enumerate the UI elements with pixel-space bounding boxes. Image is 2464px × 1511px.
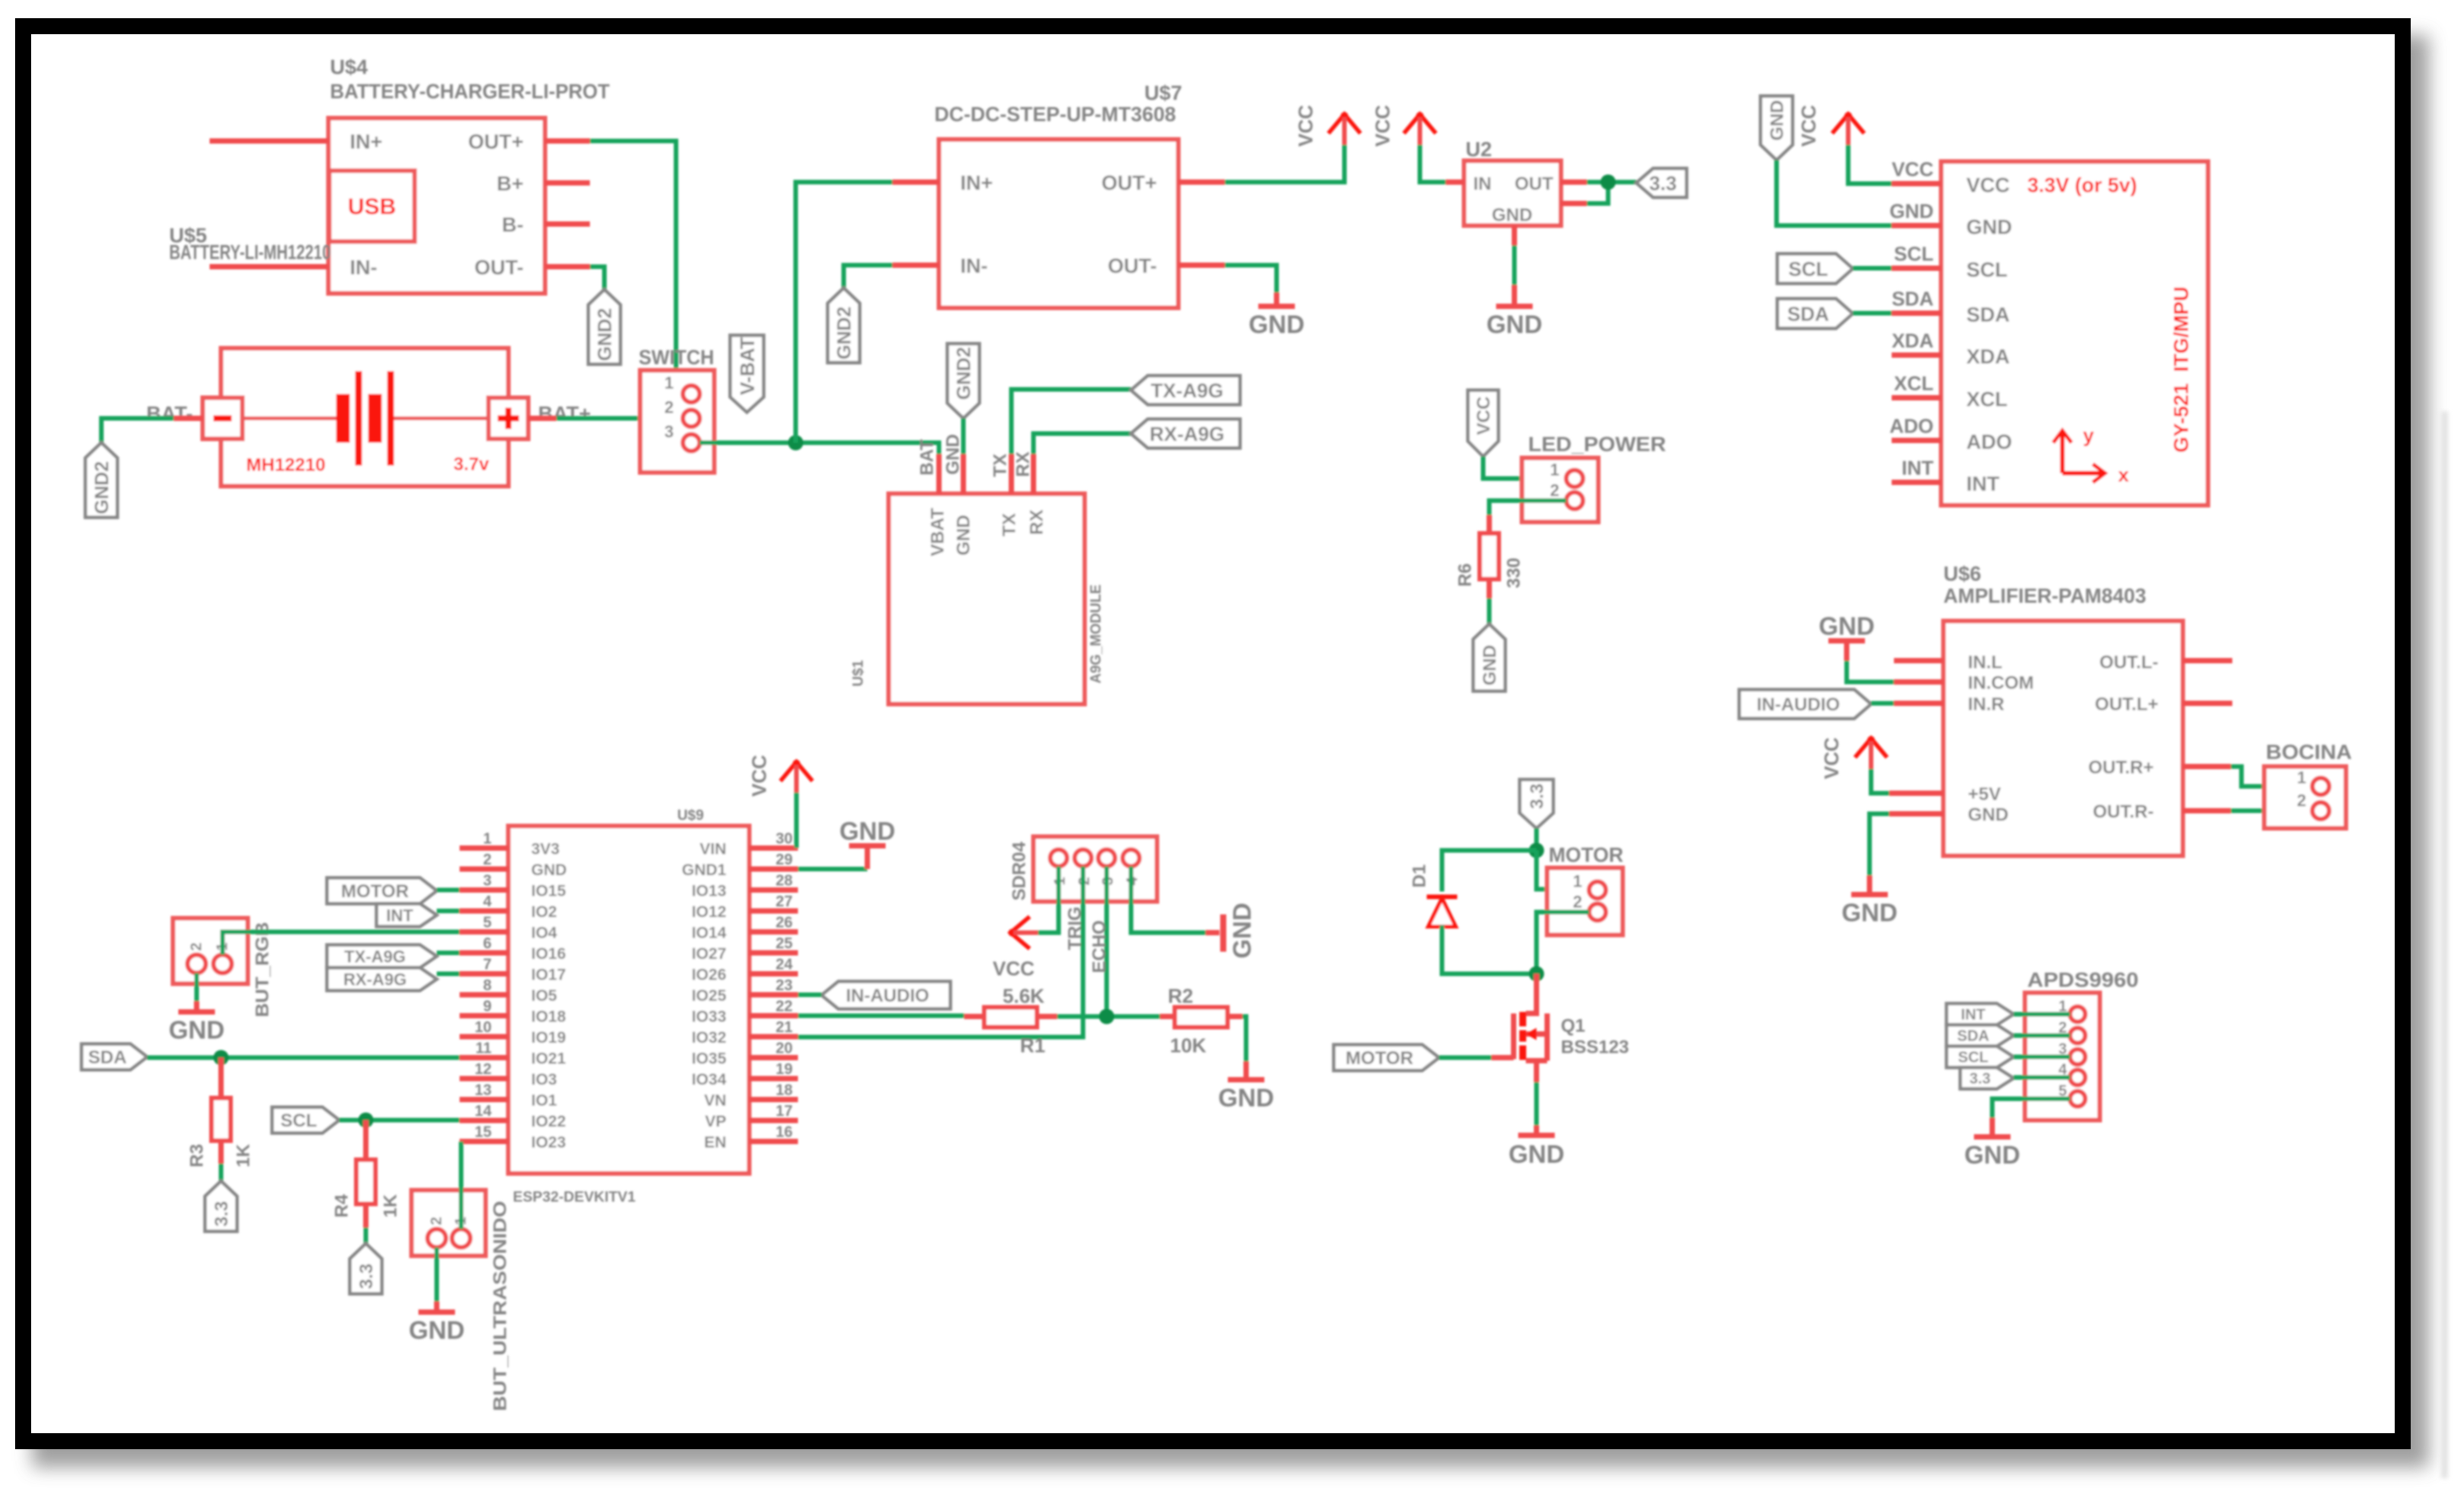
svg-text:VCC: VCC — [1966, 174, 2010, 197]
pin 2 GND of U$9 — [460, 852, 567, 879]
wire SCL flag to APDS9960 pin 3 — [2014, 1055, 2070, 1059]
APDS9960 pin 1 — [2059, 998, 2085, 1022]
junction node motor supply — [1529, 843, 1544, 858]
pin ADO of GY-521 — [1889, 415, 2012, 453]
pin 4 IO2 of U$9 — [460, 894, 557, 921]
svg-text:GND: GND — [1964, 1141, 2020, 1169]
svg-text:OUT-: OUT- — [1108, 255, 1158, 277]
pin 25 IO27 of U$9 — [691, 936, 798, 963]
svg-text:SDR04: SDR04 — [1009, 841, 1030, 901]
junction node Q1 drain — [1529, 966, 1544, 981]
pin 28 IO13 of U$9 — [691, 872, 798, 900]
svg-text:SDA: SDA — [1966, 303, 2010, 326]
svg-text:1: 1 — [1573, 872, 1582, 891]
svg-text:IN-AUDIO: IN-AUDIO — [846, 986, 929, 1007]
pin 16 EN of U$9 — [704, 1124, 798, 1151]
svg-text:2: 2 — [483, 852, 492, 869]
svg-text:IO3: IO3 — [531, 1071, 557, 1089]
svg-text:OUT.L+: OUT.L+ — [2095, 694, 2158, 715]
svg-text:GND: GND — [1818, 612, 1874, 640]
wire SCL flag to U$9 IO22 — [339, 1118, 460, 1122]
svg-text:GND2: GND2 — [953, 347, 975, 399]
svg-text:30: 30 — [776, 831, 793, 847]
svg-text:GND2: GND2 — [834, 306, 855, 359]
svg-text:SWITCH: SWITCH — [639, 346, 714, 369]
net flag IN-AUDIO at U$9 IO25 — [822, 981, 950, 1009]
svg-text:3.7v: 3.7v — [453, 454, 489, 475]
svg-text:INT: INT — [1966, 472, 2000, 495]
svg-text:U$6: U$6 — [1943, 562, 1982, 585]
net label BAT+ — [538, 402, 591, 425]
connector BOCINA — [2264, 741, 2352, 828]
BOCINA pin 2 — [2297, 791, 2329, 819]
wire U2 OUT to 3.3 flag — [1587, 182, 1636, 203]
pin 8 IO5 of U$9 — [460, 978, 557, 1005]
svg-text:B+: B+ — [497, 172, 524, 195]
pin 2 of U2 — [1561, 201, 1587, 206]
wire BAT+ to SWITCH pin 2 — [556, 416, 684, 421]
diode D1 — [1409, 864, 1457, 927]
svg-text:3.3: 3.3 — [1969, 1071, 1991, 1087]
svg-text:BUT_RGB: BUT_RGB — [252, 922, 273, 1017]
svg-text:D1: D1 — [1409, 864, 1430, 888]
pin TX of A9G — [990, 453, 1020, 536]
svg-text:IO12: IO12 — [691, 904, 726, 921]
svg-text:MOTOR: MOTOR — [341, 882, 409, 902]
svg-text:GND: GND — [1508, 1140, 1564, 1168]
module U$6 AMPLIFIER-PAM8403 — [1943, 562, 2183, 856]
MOTOR pin 1 — [1573, 872, 1606, 898]
svg-text:12: 12 — [475, 1061, 492, 1078]
ground flag GND2 at A9G — [947, 344, 979, 418]
wire U$7 IN- to GND2 flag — [844, 265, 892, 288]
svg-text:GND: GND — [1218, 1084, 1274, 1112]
svg-text:GND2: GND2 — [594, 308, 616, 360]
pin GND of GY-521 — [1889, 200, 2012, 238]
svg-text:IN: IN — [1473, 174, 1492, 194]
wire BUT_ULTRASONIDO pin 2 to ground — [434, 1247, 439, 1311]
wire BUT_ULTRASONIDO pin 1 to U$9 IO23 — [459, 1141, 463, 1229]
svg-text:INT: INT — [386, 906, 414, 925]
ground symbol GND below Q1 — [1508, 1135, 1564, 1168]
module U$1 A9G_MODULE — [851, 494, 1104, 704]
pin 24 IO26 of U$9 — [691, 956, 798, 984]
net flag TX-A9G at U$9 IO16 — [327, 945, 437, 968]
junction node SDA at R3 — [213, 1050, 229, 1065]
pin SCL of GY-521 — [1892, 242, 2007, 281]
svg-text:GND: GND — [953, 515, 974, 555]
pin 22 IO33 of U$9 — [691, 998, 798, 1026]
module U$9 ESP32-DEVKITV1 — [508, 808, 749, 1205]
svg-text:GY-521 ITG/MPU: GY-521 ITG/MPU — [2170, 287, 2193, 453]
BUT_RGB pin 1 — [213, 943, 232, 973]
BUT_RGB pin 2 — [187, 943, 206, 973]
wire U$7 OUT- to GND — [1225, 265, 1277, 305]
wire BAT- to GND2 flag — [101, 418, 174, 443]
wire node to MOTOR pin 1 — [1536, 850, 1589, 889]
pin B+ of U$4 — [497, 172, 590, 195]
pin 3 IO15 of U$9 — [460, 872, 566, 900]
svg-text:IO5: IO5 — [531, 988, 557, 1005]
SWITCH pin 2 — [665, 398, 700, 427]
wire R1 to R2 — [1057, 1014, 1160, 1019]
net flag SCL — [272, 1107, 339, 1133]
wire VCC arrow to U$6 +5V — [1871, 769, 1889, 793]
svg-text:SCL: SCL — [1789, 258, 1828, 280]
svg-text:IO26: IO26 — [691, 966, 726, 984]
svg-text:EN: EN — [704, 1134, 726, 1151]
svg-text:XDA: XDA — [1892, 329, 1934, 352]
svg-text:IO33: IO33 — [691, 1008, 726, 1026]
ground symbol GND below R2 — [1218, 1080, 1274, 1112]
svg-text:11: 11 — [476, 1040, 492, 1057]
value label MH12210 — [246, 455, 325, 475]
wire U$6 OUT.R+ to BOCINA pin 1 — [2231, 767, 2312, 786]
svg-text:3: 3 — [483, 872, 492, 889]
net flag SDA — [1777, 299, 1853, 328]
svg-text:BAT+: BAT+ — [538, 402, 591, 425]
net flag SCL at APDS9960 — [1947, 1046, 2014, 1068]
svg-text:25: 25 — [776, 936, 793, 952]
label GY-521 ITG/MPU — [2170, 287, 2193, 453]
svg-text:IO17: IO17 — [531, 966, 566, 984]
svg-text:VP: VP — [705, 1113, 726, 1131]
wire SDA flag to GY-521 SDA — [1853, 311, 1892, 315]
LED_POWER pin 2 — [1550, 481, 1583, 509]
pin OUT.L+ of U$6 — [2095, 694, 2232, 715]
svg-text:GND: GND — [1767, 100, 1788, 140]
LED_POWER pin 1 — [1550, 460, 1583, 487]
pin 6 IO16 of U$9 — [460, 936, 566, 963]
svg-text:GND: GND — [1228, 903, 1256, 959]
svg-text:GND: GND — [1248, 310, 1304, 338]
svg-text:SCL: SCL — [1958, 1049, 1988, 1066]
wire TX-A9G flag to pin IO16 — [437, 951, 460, 956]
pin IN.L of U$6 — [1894, 652, 2002, 673]
svg-text:GND: GND — [1841, 898, 1897, 927]
pin 11 IO21 of U$9 — [460, 1040, 566, 1068]
wire VCC arrow to U$9 VIN — [794, 792, 799, 848]
svg-text:IN.COM: IN.COM — [1968, 673, 2034, 693]
junction node divider at R1-R2 — [1099, 1009, 1114, 1024]
resistor R4 1K — [332, 1120, 401, 1228]
svg-text:VCC: VCC — [748, 754, 771, 796]
junction node at U2 OUT — [1600, 174, 1616, 190]
pin IN+ of U$4 — [210, 130, 383, 153]
svg-text:OUT.L-: OUT.L- — [2100, 652, 2158, 673]
net flag INT at U$9 IO2 — [376, 904, 437, 927]
junction node V-BAT — [788, 435, 803, 450]
ground symbol GND at U$7 OUT- — [1248, 306, 1304, 338]
pin OUT.L- of U$6 — [2100, 652, 2232, 673]
svg-text:U$4: U$4 — [330, 56, 368, 78]
svg-text:IO16: IO16 — [531, 946, 566, 963]
svg-text:GND: GND — [1966, 216, 2012, 238]
svg-text:15: 15 — [475, 1124, 492, 1141]
svg-text:TX-A9G: TX-A9G — [1151, 379, 1223, 402]
connector LED_POWER — [1522, 433, 1666, 522]
wire Q1 source to ground — [1534, 1082, 1539, 1134]
svg-text:SDA: SDA — [88, 1048, 127, 1068]
wire SCL flag to GY-521 SCL — [1853, 266, 1892, 271]
svg-text:R3: R3 — [187, 1144, 207, 1167]
svg-text:SCL: SCL — [1894, 242, 1934, 265]
svg-text:SDA: SDA — [1957, 1028, 1989, 1045]
connector BUT_ULTRASONIDO — [412, 1190, 511, 1411]
svg-text:VCC: VCC — [1820, 737, 1843, 779]
svg-text:7: 7 — [483, 956, 492, 973]
svg-text:GND: GND — [1889, 200, 1934, 222]
svg-text:5.6K: 5.6K — [1003, 984, 1045, 1007]
svg-text:U2: U2 — [1466, 138, 1492, 161]
pin SDA of GY-521 — [1892, 287, 2010, 326]
battery cell plates — [242, 371, 489, 466]
pin IN of U2 — [1446, 174, 1492, 194]
svg-text:INT: INT — [1961, 1007, 1985, 1023]
svg-text:IO13: IO13 — [691, 882, 726, 900]
svg-text:3.3V (or 5v): 3.3V (or 5v) — [2027, 174, 2137, 197]
svg-text:8: 8 — [483, 978, 492, 994]
pin IN.R of U$6 — [1894, 694, 2004, 715]
pin 26 IO14 of U$9 — [691, 914, 798, 942]
wire A9G TX to TX-A9G flag — [1011, 389, 1131, 454]
svg-text:19: 19 — [776, 1061, 793, 1078]
svg-text:BATTERY-CHARGER-LI-PROT: BATTERY-CHARGER-LI-PROT — [330, 80, 610, 103]
SDR04 pin 4 — [1123, 850, 1141, 885]
svg-text:XCL: XCL — [1966, 388, 2007, 411]
wire SWITCH pin 3 to A9G BAT — [700, 443, 939, 454]
svg-text:BSS123: BSS123 — [1561, 1037, 1629, 1058]
regulator U2 — [1464, 138, 1561, 226]
svg-text:GND: GND — [1480, 645, 1501, 685]
net flag RX-A9G — [1131, 419, 1240, 448]
connector MOTOR — [1547, 844, 1623, 935]
pin GND of A9G — [943, 434, 974, 555]
wire U$4 OUT+ to SWITCH pin 1 — [590, 141, 676, 387]
pin BAT+ stub — [528, 416, 556, 421]
battery U$5 BATTERY-LI-MH12210 — [169, 224, 508, 486]
pin IN- of U$7 — [892, 255, 988, 277]
svg-text:Q1: Q1 — [1561, 1016, 1585, 1036]
ground symbol GND below BUT_ULTRASONIDO — [409, 1312, 464, 1344]
svg-text:IO18: IO18 — [531, 1008, 566, 1026]
svg-text:IO27: IO27 — [691, 946, 726, 963]
svg-text:VCC: VCC — [1474, 396, 1495, 435]
svg-text:+5V: +5V — [1968, 784, 2001, 805]
svg-text:R1: R1 — [1020, 1034, 1045, 1057]
pin BAT- stub — [174, 416, 203, 421]
svg-text:R4: R4 — [332, 1194, 352, 1218]
svg-text:U$7: U$7 — [1144, 82, 1182, 104]
wire LED_POWER pin 2 to R6 — [1489, 501, 1566, 515]
net flag 3.3 at U2 OUT — [1636, 168, 1687, 197]
svg-text:U$9: U$9 — [678, 808, 704, 824]
svg-text:ESP32-DEVKITV1: ESP32-DEVKITV1 — [513, 1189, 636, 1205]
ground symbol GND below BUT_RGB — [168, 1012, 224, 1044]
svg-text:23: 23 — [776, 978, 793, 994]
svg-text:3: 3 — [665, 422, 674, 441]
pin 29 GND1 of U$9 — [682, 852, 798, 879]
svg-text:VIN: VIN — [700, 840, 726, 858]
svg-text:OUT+: OUT+ — [1101, 171, 1157, 194]
SWITCH pin 3 — [665, 422, 700, 451]
pin XCL of GY-521 — [1892, 372, 2007, 411]
connector SDR04 — [1009, 837, 1157, 901]
svg-text:IN-: IN- — [960, 255, 988, 277]
svg-text:RX: RX — [1027, 510, 1047, 535]
net flag SDA at APDS9960 — [1947, 1025, 2014, 1046]
pin IN- of U$4 — [210, 256, 377, 279]
svg-text:IN-: IN- — [350, 256, 377, 279]
svg-text:GND: GND — [409, 1316, 464, 1344]
svg-text:IO1: IO1 — [531, 1092, 557, 1109]
wire D1 anode to Q1 drain node — [1442, 925, 1536, 974]
ground flag GND2 at U$7 IN- — [828, 288, 860, 363]
pin OUT+ of U$4 — [468, 130, 590, 153]
svg-text:3V3: 3V3 — [531, 840, 559, 858]
svg-text:1K: 1K — [233, 1144, 254, 1167]
svg-text:10: 10 — [475, 1020, 492, 1036]
svg-text:GND: GND — [531, 862, 567, 879]
BUT_ULTRASONIDO pin 2 — [428, 1217, 446, 1247]
wire GND flag to GY-521 GND — [1777, 160, 1892, 226]
svg-text:IO14: IO14 — [691, 924, 726, 942]
svg-text:R2: R2 — [1168, 984, 1193, 1007]
transistor Q1 BSS123 — [1492, 994, 1629, 1082]
wire U$9 IO33 to R1 — [798, 1013, 964, 1018]
wire U$4 OUT- to GND2 flag — [590, 267, 604, 292]
wire MOTOR pin 2 to Q1 drain node — [1536, 912, 1589, 974]
svg-text:y: y — [2083, 424, 2094, 447]
wire U$9 GND1 to ground — [798, 847, 867, 869]
junction node SCL at R4 — [358, 1112, 373, 1128]
net flag RX-A9G at U$9 IO17 — [327, 968, 437, 991]
svg-text:1: 1 — [483, 831, 492, 847]
svg-text:26: 26 — [776, 914, 793, 931]
power arrow VCC at U2 IN — [1371, 104, 1436, 146]
svg-text:OUT-: OUT- — [475, 256, 524, 279]
svg-text:BAT-: BAT- — [146, 402, 193, 425]
svg-text:A9G_MODULE: A9G_MODULE — [1088, 584, 1104, 683]
SDR04 pin 3 — [1098, 850, 1117, 885]
svg-text:IO23: IO23 — [531, 1134, 566, 1151]
power flag 3.3 below R3 — [205, 1181, 237, 1231]
wire APDS9960 pin 5 to ground — [1992, 1099, 2070, 1135]
svg-text:ADO: ADO — [1889, 415, 1934, 437]
pin OUT- of U$7 — [1108, 255, 1226, 277]
net flag V-BAT — [730, 335, 764, 412]
svg-text:U$1: U$1 — [851, 660, 867, 687]
wire BUT_RGB pin 2 to ground — [194, 973, 199, 1010]
pin 20 IO35 of U$9 — [691, 1040, 798, 1068]
svg-text:28: 28 — [776, 872, 793, 889]
svg-text:OUT: OUT — [1514, 174, 1553, 194]
svg-text:IO34: IO34 — [691, 1071, 726, 1089]
svg-text:INT: INT — [1902, 456, 1934, 479]
svg-text:GND1: GND1 — [682, 862, 727, 879]
svg-text:2: 2 — [2297, 791, 2306, 810]
SDR04 pin 2 — [1075, 850, 1093, 885]
svg-text:1: 1 — [1550, 460, 1559, 479]
svg-text:5: 5 — [483, 914, 492, 931]
svg-text:VN: VN — [704, 1092, 726, 1109]
wire MOTOR flag to pin IO15 — [437, 888, 460, 892]
wire 3.3 flag to motor node — [1534, 828, 1539, 850]
value label 3.7v — [453, 454, 489, 475]
connector BUT_RGB — [173, 918, 273, 1017]
svg-text:XCL: XCL — [1894, 372, 1934, 395]
svg-text:VBAT: VBAT — [928, 507, 948, 556]
svg-text:RX-A9G: RX-A9G — [343, 970, 406, 989]
wire TRIG SDR04 pin 2 to U$9 IO32 — [798, 866, 1085, 1037]
svg-text:GND: GND — [1968, 805, 2008, 825]
svg-text:OUT.R+: OUT.R+ — [2088, 757, 2154, 778]
pin GND label of U2 — [1492, 205, 1532, 226]
wire GND to U$6 IN.COM — [1847, 641, 1894, 682]
svg-text:18: 18 — [776, 1082, 793, 1099]
ground flag GND2 at U$4 OUT- — [588, 290, 620, 364]
svg-text:RX: RX — [1013, 452, 1033, 477]
axes x-y marker of GY-521 — [2053, 424, 2129, 486]
svg-text:9: 9 — [483, 998, 492, 1015]
wire U$9 IO25 to IN-AUDIO flag — [798, 993, 822, 997]
svg-text:17: 17 — [776, 1103, 793, 1120]
svg-text:27: 27 — [776, 894, 793, 911]
svg-text:16: 16 — [776, 1124, 793, 1141]
pin OUT+ of U$7 — [1101, 171, 1225, 194]
USB connector box of U$4 — [329, 171, 415, 242]
SWITCH pin 1 — [665, 373, 700, 402]
wire U$6 GND pin to ground — [1870, 814, 1889, 893]
svg-text:IN+: IN+ — [960, 171, 993, 194]
pin 5 IO4 of U$9 — [460, 914, 557, 942]
svg-text:3.3: 3.3 — [1649, 171, 1677, 194]
svg-text:10K: 10K — [1170, 1034, 1206, 1057]
pin 19 IO34 of U$9 — [691, 1061, 798, 1089]
svg-text:2: 2 — [1550, 481, 1559, 500]
svg-text:21: 21 — [776, 1020, 793, 1036]
ground symbol GND at U2 — [1486, 306, 1542, 338]
wire IN-AUDIO flag to U$6 IN.R — [1871, 701, 1894, 706]
wire R6 to GND flag — [1487, 598, 1492, 624]
svg-text:XDA: XDA — [1966, 345, 2010, 368]
svg-text:1K: 1K — [380, 1194, 401, 1218]
svg-text:TX-A9G: TX-A9G — [344, 947, 406, 966]
svg-text:TX: TX — [999, 513, 1020, 536]
net flag 3.3 at APDS9960 — [1960, 1068, 2014, 1089]
svg-text:SCL: SCL — [1966, 258, 2007, 281]
pin +5V of U$6 — [1889, 784, 2001, 805]
wire ECHO SDR04 pin 3 to divider node — [1089, 866, 1110, 1016]
battery positive terminal — [489, 398, 528, 439]
svg-text:IO25: IO25 — [691, 988, 726, 1005]
pin OUT- of U$4 — [475, 256, 591, 279]
module U$7 DC-DC-STEP-UP-MT3608 — [934, 82, 1182, 308]
wire RX-A9G flag to pin IO17 — [437, 972, 460, 976]
svg-text:MH12210: MH12210 — [246, 455, 325, 475]
net flag INT at APDS9960 — [1947, 1004, 2014, 1025]
svg-text:IO19: IO19 — [531, 1029, 566, 1047]
power flag 3.3 below R4 — [350, 1244, 382, 1294]
svg-text:29: 29 — [776, 852, 793, 869]
svg-text:IO2: IO2 — [531, 904, 557, 921]
ground flag GND below R6 — [1473, 624, 1505, 691]
pin IN.COM of U$6 — [1894, 673, 2034, 693]
svg-text:OUT.R-: OUT.R- — [2093, 802, 2154, 822]
svg-text:3.3: 3.3 — [1527, 783, 1548, 808]
svg-text:SDA: SDA — [1787, 303, 1829, 325]
APDS9960 pin 3 — [2059, 1041, 2085, 1064]
